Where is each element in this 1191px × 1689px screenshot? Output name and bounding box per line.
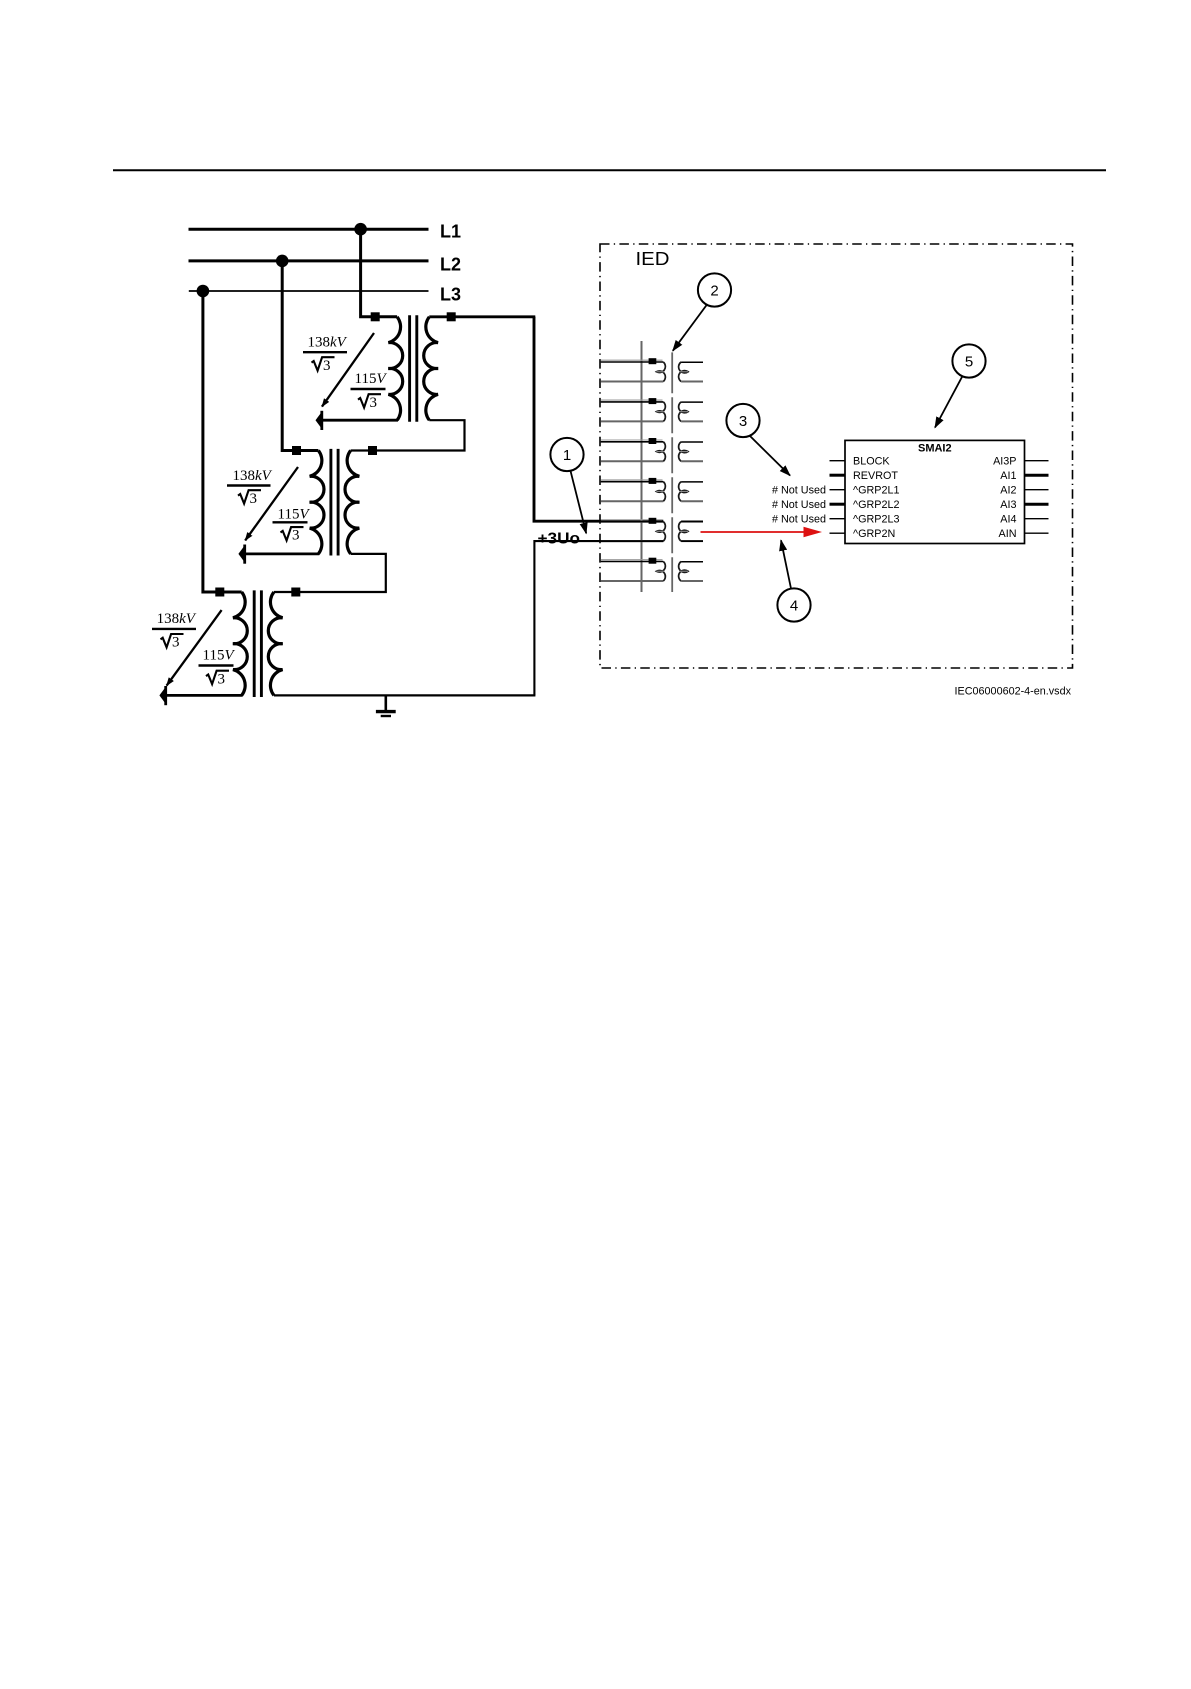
svg-text:3: 3 [250, 491, 258, 507]
label T3 115V/sqrt3 [199, 648, 236, 688]
callout circle 1 [550, 438, 586, 533]
svg-text:IEC06000602-4-en.vsdx: IEC06000602-4-en.vsdx [955, 686, 1072, 698]
IED enclosure dash-dot border [600, 244, 1073, 668]
svg-text:^GRP2L1: ^GRP2L1 [853, 485, 899, 497]
label T1 138kV/sqrt3 [303, 335, 348, 374]
svg-text:115V: 115V [278, 506, 311, 522]
svg-text:3: 3 [292, 528, 300, 544]
earth terminal T2 primary [238, 545, 244, 564]
svg-text:L2: L2 [440, 255, 461, 275]
junction node on L1 [354, 223, 367, 236]
svg-text:^GRP2L3: ^GRP2L3 [853, 514, 899, 526]
wire T2 secondary bottom to T3 secondary top [274, 554, 386, 592]
wire row5 secondary bottom (black) [681, 540, 703, 542]
svg-text:115V: 115V [355, 371, 388, 387]
svg-text:L1: L1 [440, 222, 461, 242]
wire bus L2 [189, 259, 429, 262]
callout circle 4 [777, 540, 810, 621]
function block SMAI2 outline [845, 440, 1025, 543]
svg-text:AIN: AIN [999, 528, 1017, 540]
callout circle 2 [673, 273, 731, 350]
label T2 115V/sqrt3 [273, 506, 311, 543]
svg-text:3: 3 [370, 395, 378, 411]
earth terminal T1 primary [316, 411, 322, 430]
pin ^GRP2L3 stub [830, 518, 846, 520]
svg-text:AI1: AI1 [1000, 470, 1016, 482]
input transformer row 6 [601, 558, 703, 581]
svg-text:# Not Used: # Not Used [772, 485, 826, 497]
svg-text:^GRP2N: ^GRP2N [853, 528, 895, 540]
svg-text:1: 1 [563, 447, 571, 464]
wire L1 to T1 primary [361, 229, 398, 317]
svg-text:# Not Used: # Not Used [772, 499, 826, 511]
pin REVROT stub [830, 474, 846, 477]
ratio slash T1 [322, 333, 374, 407]
svg-text:3: 3 [739, 413, 747, 430]
transformer T2 (phase L2 VT) windings and core [292, 446, 377, 556]
ratio slash T2 [245, 467, 298, 540]
pin AI4 stub [1025, 518, 1049, 520]
svg-text:3: 3 [172, 635, 180, 651]
wire T3 secondary bottom lead to return [274, 694, 536, 696]
pin BLOCK stub [830, 460, 846, 462]
pin ^GRP2N stub [830, 532, 846, 534]
input transformer row 3 [601, 438, 703, 461]
pin AIN stub [1025, 532, 1049, 534]
wire T1 secondary top lead to output [429, 315, 535, 318]
pin AI1 stub [1025, 474, 1049, 477]
wire T1 secondary bottom to T2 secondary top [351, 420, 465, 450]
svg-text:AI2: AI2 [1000, 485, 1016, 497]
pin AI3 stub [1025, 503, 1049, 506]
svg-text:# Not Used: # Not Used [772, 514, 826, 526]
wire row5 primary bottom (black return inside IED) [534, 540, 663, 542]
svg-text:^GRP2L2: ^GRP2L2 [853, 499, 899, 511]
red signal arrow from row5 secondary to GRP2N [701, 527, 823, 537]
earth terminal T3 primary [159, 686, 165, 705]
svg-text:115V: 115V [203, 648, 236, 664]
wire L3 to T3 primary [203, 291, 242, 592]
callout circle 3 [726, 404, 790, 476]
svg-text:REVROT: REVROT [853, 470, 898, 482]
pin AI3P stub [1025, 460, 1049, 462]
transformer T3 (phase L3 VT) windings and core [215, 588, 300, 698]
svg-text:L3: L3 [440, 285, 461, 305]
pin AI2 stub [1025, 489, 1049, 491]
input transformer row 1 [601, 358, 703, 381]
wire bus L3 [189, 290, 429, 292]
wire bus L1 [189, 228, 429, 231]
svg-text:5: 5 [965, 353, 973, 370]
svg-text:AI3P: AI3P [993, 456, 1016, 468]
svg-text:138kV: 138kV [157, 611, 197, 627]
junction node on L2 [276, 255, 289, 268]
callout circle 5 [935, 344, 986, 427]
svg-text:3: 3 [218, 671, 226, 687]
wire T2 primary bottom lead [246, 553, 319, 556]
page top rule [113, 169, 1106, 171]
wire T3 primary bottom lead [167, 694, 243, 697]
wire L2 to T2 primary [282, 261, 318, 451]
ground symbol on secondary return [376, 695, 396, 716]
svg-text:138kV: 138kV [233, 468, 273, 484]
input transformer row 2 [601, 398, 703, 421]
svg-text:2: 2 [710, 282, 718, 299]
svg-text:+3Uo: +3Uo [538, 530, 581, 547]
input transformer row 5 (3Uo input) [601, 518, 703, 541]
ratio slash T3 [167, 610, 222, 686]
pin ^GRP2L2 stub [830, 503, 846, 506]
wire IED input return [534, 541, 663, 695]
wire +3Uo feed to IED input [534, 317, 663, 521]
label T1 115V/sqrt3 [351, 371, 388, 411]
pin ^GRP2L1 stub [830, 489, 846, 491]
svg-text:3: 3 [323, 358, 331, 374]
label T3 138kV/sqrt3 [152, 611, 197, 650]
svg-text:SMAI2: SMAI2 [918, 443, 952, 455]
IED transformer core rail (gray, segmented) [671, 352, 673, 592]
svg-text:4: 4 [790, 597, 798, 614]
wire T1 primary bottom lead [323, 419, 398, 422]
svg-text:AI3: AI3 [1000, 499, 1016, 511]
svg-text:IED: IED [636, 249, 670, 269]
transformer T1 (phase L1 VT) windings and core [371, 312, 456, 422]
svg-text:BLOCK: BLOCK [853, 456, 890, 468]
svg-text:138kV: 138kV [308, 335, 348, 351]
input transformer row 4 [601, 478, 703, 501]
junction node on L3 [197, 285, 210, 298]
wire row5 secondary top (black) [681, 520, 703, 522]
label T2 138kV/sqrt3 [227, 468, 273, 507]
svg-text:AI4: AI4 [1000, 514, 1016, 526]
IED input terminal rail (gray) [641, 341, 643, 592]
